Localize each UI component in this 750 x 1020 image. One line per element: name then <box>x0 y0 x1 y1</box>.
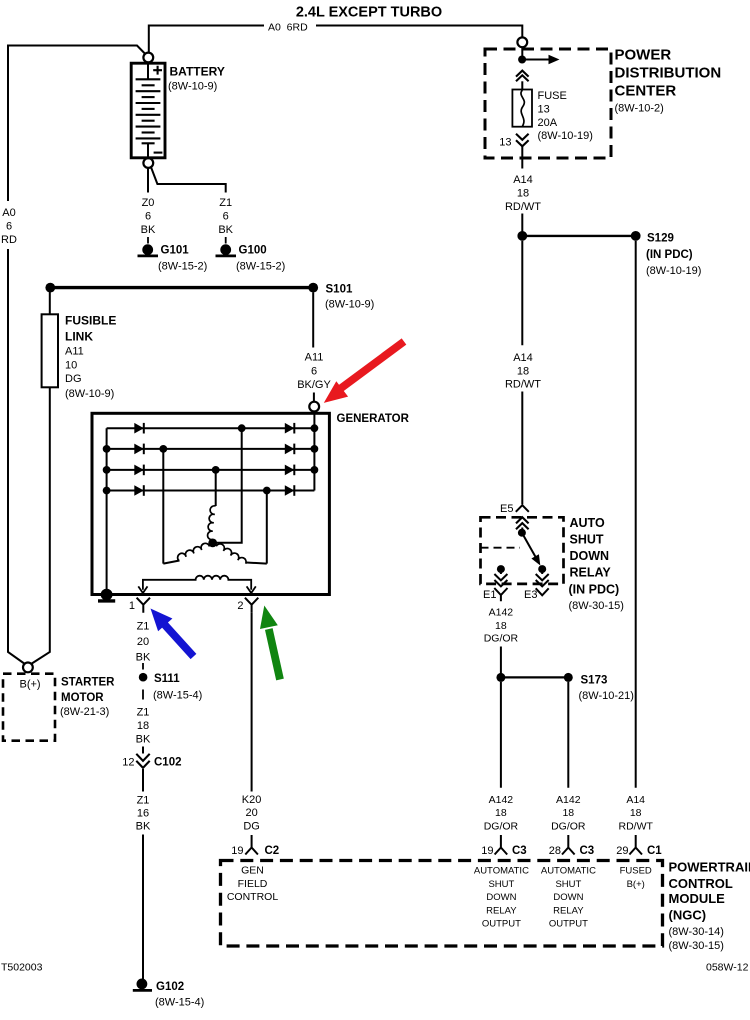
svg-text:DG/OR: DG/OR <box>551 821 586 833</box>
svg-text:Z1: Z1 <box>137 707 150 719</box>
wire <box>521 47 523 59</box>
wire dash <box>142 690 144 700</box>
starter motor M1 box <box>3 674 55 741</box>
svg-text:18: 18 <box>137 720 149 732</box>
node S101 right dot <box>308 283 318 293</box>
generator terminal circle <box>309 402 319 412</box>
svg-text:19: 19 <box>231 845 243 857</box>
fuse F13 <box>512 90 532 127</box>
label POWERTRAIN CONTROL MODULE (NGC) <box>669 860 750 953</box>
svg-text:LINK: LINK <box>65 329 93 343</box>
svg-text:GENERATOR: GENERATOR <box>337 413 410 425</box>
svg-text:OUTPUT: OUTPUT <box>549 919 588 930</box>
svg-text:18: 18 <box>495 807 507 819</box>
svg-text:(8W-15-2): (8W-15-2) <box>158 261 207 273</box>
svg-text:RD: RD <box>1 234 17 246</box>
battery terminal circle top <box>143 53 153 63</box>
node <box>159 445 167 453</box>
wire to fusible link <box>49 292 51 314</box>
svg-text:(NGC): (NGC) <box>669 908 707 923</box>
svg-text:A14: A14 <box>513 352 533 364</box>
label G102 <box>155 981 204 1009</box>
svg-text:A142: A142 <box>489 794 514 806</box>
svg-text:BK/GY: BK/GY <box>297 379 331 391</box>
svg-text:6: 6 <box>145 211 151 223</box>
svg-text:(8W-15-2): (8W-15-2) <box>236 261 285 273</box>
wire right bus <box>313 412 315 491</box>
svg-text:20: 20 <box>245 807 257 819</box>
label 28 C3 <box>549 845 594 857</box>
svg-text:A0 6RD: A0 6RD <box>268 22 308 34</box>
svg-text:6: 6 <box>6 221 12 233</box>
node <box>263 487 271 495</box>
label Z1 6 BK <box>218 197 233 236</box>
wire S129 <box>522 235 635 237</box>
ground G102 <box>133 980 152 991</box>
node S101 left dot <box>45 283 55 293</box>
svg-text:DOWN: DOWN <box>570 549 610 563</box>
diode D3 <box>134 465 144 476</box>
relay internal divider <box>481 547 521 549</box>
diode D4 <box>134 485 144 496</box>
label G101 <box>158 245 207 273</box>
svg-text:A0: A0 <box>2 207 15 219</box>
svg-text:G102: G102 <box>156 981 184 993</box>
terminal 2 connector <box>245 598 258 613</box>
connector chevrons into fuse <box>516 71 529 82</box>
svg-text:28: 28 <box>549 845 561 857</box>
svg-text:RELAY: RELAY <box>486 905 517 916</box>
wire diode row 3 <box>107 469 315 471</box>
wire diode row 2 <box>107 448 315 450</box>
label A11 6 BK/GY <box>297 352 331 392</box>
label FUSE 13 20A <box>538 90 593 142</box>
wire A11 <box>312 292 314 347</box>
ground G100 <box>216 245 237 256</box>
ground G101 <box>138 245 159 256</box>
connector E1 <box>494 588 507 601</box>
node <box>238 424 246 432</box>
stator winding right coil <box>216 544 246 564</box>
node S173 right <box>564 673 573 682</box>
svg-text:C3: C3 <box>580 845 595 857</box>
label AUTOMATIC SHUT DOWN RELAY OUTPUT col2 <box>541 866 596 930</box>
svg-text:19: 19 <box>481 845 493 857</box>
node wye center <box>208 539 217 548</box>
node left bus row2 <box>103 445 111 453</box>
svg-text:FUSED: FUSED <box>620 866 652 877</box>
wire <box>142 747 144 754</box>
label Z1 20 BK <box>136 621 151 664</box>
wire stator drop row1 to wye center <box>214 428 242 543</box>
label Z1 16 BK <box>136 795 151 833</box>
svg-text:(8W-30-14): (8W-30-14) <box>669 926 724 938</box>
connector C3 pin 28 <box>562 835 575 855</box>
ground generator case <box>98 590 115 601</box>
starter motor terminal circle <box>23 663 33 673</box>
svg-text:A14: A14 <box>513 174 533 186</box>
wire A0 top from battery to PDC <box>149 26 264 53</box>
node relay E3 <box>538 565 546 573</box>
svg-text:T502003: T502003 <box>1 962 43 974</box>
generator box <box>92 413 329 594</box>
wire Z0 <box>147 168 149 193</box>
wire A0 left branch <box>8 46 145 202</box>
svg-text:RD/WT: RD/WT <box>505 201 541 213</box>
svg-text:13: 13 <box>499 137 511 149</box>
node S111 <box>139 673 148 682</box>
connector E3 <box>536 588 549 595</box>
wire dash <box>147 237 149 244</box>
svg-text:RD/WT: RD/WT <box>505 379 541 391</box>
svg-text:S101: S101 <box>326 284 353 296</box>
svg-text:CENTER: CENTER <box>615 83 677 100</box>
connector C2 pin 19 <box>245 835 258 855</box>
svg-text:CONTROL: CONTROL <box>669 876 733 891</box>
svg-text:BK: BK <box>136 821 151 833</box>
svg-text:A142: A142 <box>556 794 581 806</box>
label A142 18 DG/OR col1 <box>484 794 519 833</box>
svg-text:K20: K20 <box>242 794 262 806</box>
wire stator drop row3 <box>215 470 217 506</box>
wire left bus <box>106 428 108 594</box>
label K20 20 DG <box>242 794 262 833</box>
connector C1 pin 29 <box>629 835 642 855</box>
powertrain control module box <box>221 861 663 947</box>
svg-text:18: 18 <box>517 366 529 378</box>
label A14 18 RD/WT <box>505 174 541 213</box>
node S129 left <box>517 231 527 241</box>
svg-text:FIELD: FIELD <box>238 878 268 890</box>
fusible link F1 <box>42 314 58 387</box>
node S129 right <box>631 231 641 241</box>
svg-text:BK: BK <box>218 224 233 236</box>
wire diode row 1 <box>107 427 315 429</box>
label Z0 6 BK <box>141 197 156 236</box>
connector C102 <box>136 754 149 768</box>
svg-text:MOTOR: MOTOR <box>61 692 104 704</box>
svg-text:C3: C3 <box>512 845 527 857</box>
svg-text:S111: S111 <box>154 673 180 685</box>
wire <box>521 392 523 505</box>
label AUTO SHUT DOWN RELAY (IN PDC) <box>569 516 624 612</box>
svg-text:SHUT: SHUT <box>555 879 581 890</box>
wire A14 from S129 to C1 <box>635 241 637 788</box>
label S111 <box>153 673 202 702</box>
node PDC feed <box>518 56 526 64</box>
relay pin E3 chevrons <box>536 569 549 586</box>
svg-text:S129: S129 <box>647 233 674 245</box>
connector chevrons out of fuse <box>516 134 529 147</box>
svg-text:B(+): B(+) <box>627 879 645 890</box>
node <box>212 466 220 474</box>
diode D7 <box>285 465 295 476</box>
svg-text:AUTOMATIC: AUTOMATIC <box>474 866 529 877</box>
svg-text:SHUT: SHUT <box>488 879 514 890</box>
node S173 left <box>496 673 505 682</box>
red arrow <box>324 342 404 403</box>
svg-text:GEN: GEN <box>241 865 264 877</box>
wire <box>142 835 144 980</box>
wire A14 down to relay <box>521 241 523 346</box>
label A14 18 RD/WT <box>505 352 541 391</box>
label AUTOMATIC SHUT DOWN RELAY OUTPUT col1 <box>474 866 529 930</box>
svg-text:DG/OR: DG/OR <box>484 821 519 833</box>
wire <box>313 393 315 402</box>
label A142 18 DG/OR <box>484 607 519 645</box>
svg-text:BK: BK <box>136 652 151 664</box>
svg-text:MODULE: MODULE <box>669 891 726 906</box>
svg-text:DISTRIBUTION: DISTRIBUTION <box>615 65 722 82</box>
label FUSED B(+) <box>620 866 652 891</box>
wire <box>521 146 523 168</box>
field terminal arrow 1 <box>138 586 147 593</box>
svg-text:AUTO: AUTO <box>570 516 605 530</box>
svg-text:FUSE: FUSE <box>538 90 567 102</box>
svg-text:(IN PDC): (IN PDC) <box>646 249 693 261</box>
svg-text:S173: S173 <box>581 675 608 687</box>
wire dash <box>225 237 227 244</box>
label A0 6 RD <box>1 207 17 246</box>
green arrow <box>260 606 280 680</box>
wire <box>521 81 523 89</box>
node left bus row3 <box>103 466 111 474</box>
svg-text:(8W-10-9): (8W-10-9) <box>65 388 114 400</box>
svg-text:C1: C1 <box>647 845 662 857</box>
wire <box>8 249 24 664</box>
svg-text:6: 6 <box>223 211 229 223</box>
svg-text:2.4L EXCEPT TURBO: 2.4L EXCEPT TURBO <box>296 5 442 21</box>
svg-text:FUSIBLE: FUSIBLE <box>65 314 116 328</box>
blue arrow <box>151 609 194 657</box>
svg-text:C2: C2 <box>265 845 280 857</box>
svg-text:RELAY: RELAY <box>553 905 584 916</box>
wire <box>567 682 569 788</box>
label G100 <box>236 245 285 273</box>
diode D5 <box>285 423 295 434</box>
relay pin E5 chevrons <box>516 517 529 529</box>
label 19 C3 <box>481 845 526 857</box>
svg-text:E1: E1 <box>483 589 496 601</box>
svg-text:Z1: Z1 <box>137 795 150 807</box>
svg-text:(8W-10-21): (8W-10-21) <box>579 690 634 702</box>
node right bus row3 <box>311 466 319 474</box>
wire wye left end <box>163 561 179 564</box>
label 19 C2 <box>231 845 279 857</box>
svg-text:Z1: Z1 <box>219 197 232 209</box>
label S173 <box>579 675 634 703</box>
svg-text:C102: C102 <box>154 757 182 769</box>
svg-text:1: 1 <box>129 600 135 612</box>
svg-text:18: 18 <box>562 807 574 819</box>
wire <box>521 528 523 533</box>
svg-text:B(+): B(+) <box>20 679 41 691</box>
svg-text:20A: 20A <box>538 117 558 129</box>
svg-text:18: 18 <box>495 620 507 632</box>
wire S173 <box>501 676 568 678</box>
svg-text:DOWN: DOWN <box>553 892 583 903</box>
splice S101 wire <box>50 286 313 289</box>
wire Z1 to G100 <box>151 167 226 193</box>
label FUSIBLE LINK <box>65 314 116 401</box>
svg-text:BK: BK <box>141 224 156 236</box>
svg-text:STARTER: STARTER <box>61 677 115 689</box>
svg-text:AUTOMATIC: AUTOMATIC <box>541 866 596 877</box>
wire <box>142 769 144 792</box>
relay pin E1 chevrons <box>494 569 507 586</box>
svg-text:E3: E3 <box>524 589 537 601</box>
svg-text:18: 18 <box>517 188 529 200</box>
wire stator drop row4 <box>266 491 268 564</box>
svg-text:10: 10 <box>65 359 77 371</box>
field terminal arrow 2 <box>247 586 256 593</box>
connector C3 pin 19 <box>495 835 508 855</box>
svg-text:BATTERY: BATTERY <box>170 65 225 79</box>
stator winding top coil <box>208 506 216 540</box>
label GEN FIELD CONTROL <box>227 865 278 904</box>
svg-text:(8W-10-9): (8W-10-9) <box>168 81 217 93</box>
arrow bus feed <box>522 55 559 65</box>
svg-text:(8W-10-2): (8W-10-2) <box>615 103 664 115</box>
node right bus row2 <box>311 445 319 453</box>
diode D8 <box>285 485 295 496</box>
svg-text:SHUT: SHUT <box>570 533 604 547</box>
wire wye right end <box>246 563 266 564</box>
wire <box>500 647 502 678</box>
node relay E1 <box>497 565 505 573</box>
label S101 <box>325 284 374 311</box>
diode D1 <box>134 423 144 434</box>
label A142 18 DG/OR col2 <box>551 794 586 833</box>
svg-text:A11: A11 <box>65 346 84 358</box>
wire dash <box>142 663 144 670</box>
svg-text:(8W-15-4): (8W-15-4) <box>155 997 204 1009</box>
svg-text:12: 12 <box>122 757 134 769</box>
svg-text:(8W-10-19): (8W-10-19) <box>538 130 593 142</box>
svg-text:(8W-10-9): (8W-10-9) <box>325 299 374 311</box>
svg-text:(8W-15-4): (8W-15-4) <box>153 690 202 702</box>
svg-text:POWER: POWER <box>615 47 672 64</box>
svg-text:29: 29 <box>616 845 628 857</box>
svg-text:(IN PDC): (IN PDC) <box>569 583 620 597</box>
svg-text:E5: E5 <box>500 503 513 515</box>
label 29 C1 <box>616 845 662 857</box>
svg-text:2: 2 <box>237 600 243 612</box>
svg-text:(8W-21-3): (8W-21-3) <box>60 706 109 718</box>
label 12 C102 <box>122 757 181 769</box>
svg-text:DG: DG <box>243 821 260 833</box>
svg-text:16: 16 <box>137 808 149 820</box>
label STARTER MOTOR <box>60 677 115 719</box>
wire K20 <box>251 613 253 792</box>
svg-text:OUTPUT: OUTPUT <box>482 919 521 930</box>
svg-text:RD/WT: RD/WT <box>618 821 653 833</box>
svg-text:18: 18 <box>630 807 642 819</box>
wire <box>521 214 523 232</box>
wire diode row 4 <box>107 490 315 492</box>
node left bus row4 <box>103 487 111 495</box>
terminal 1 connector <box>137 598 150 613</box>
svg-text:A14: A14 <box>626 794 645 806</box>
wire <box>500 682 502 788</box>
svg-text:Z0: Z0 <box>142 197 155 209</box>
svg-text:POWERTRAIN: POWERTRAIN <box>669 860 750 875</box>
node right bus row1 <box>311 424 319 432</box>
wire stator drop row2 <box>162 449 164 564</box>
diode D6 <box>285 444 295 455</box>
svg-text:DG: DG <box>65 373 82 385</box>
label S129 (IN PDC) <box>646 233 701 278</box>
svg-text:G101: G101 <box>161 245 190 257</box>
svg-text:RELAY: RELAY <box>570 566 612 580</box>
node relay common <box>518 529 526 537</box>
svg-text:20: 20 <box>137 636 149 648</box>
svg-text:G100: G100 <box>239 245 267 257</box>
label POWER DISTRIBUTION CENTER <box>615 47 722 115</box>
svg-text:DOWN: DOWN <box>486 892 516 903</box>
svg-text:13: 13 <box>538 104 550 116</box>
connector E5 <box>516 505 529 512</box>
relay switch arm <box>522 533 540 566</box>
stator winding left coil <box>178 543 210 560</box>
svg-text:A142: A142 <box>489 607 514 619</box>
label A14 18 RD/WT col3 <box>618 794 653 833</box>
diode D2 <box>134 444 144 455</box>
svg-text:6: 6 <box>311 365 317 377</box>
battery terminal circle bottom <box>143 158 153 168</box>
svg-text:058W-12: 058W-12 <box>706 962 749 974</box>
label Z1 18 BK <box>136 707 151 746</box>
svg-text:(8W-30-15): (8W-30-15) <box>669 940 724 952</box>
PDC terminal circle <box>517 37 527 47</box>
label BATTERY <box>168 65 225 93</box>
battery B1 <box>131 63 165 158</box>
svg-text:A11: A11 <box>305 352 324 364</box>
wire fusible link to starter <box>32 387 50 663</box>
svg-text:DG/OR: DG/OR <box>484 633 519 645</box>
power distribution center box <box>485 49 611 158</box>
field winding L1 <box>143 576 251 590</box>
auto shut down relay K1 box <box>481 517 564 584</box>
svg-text:Z1: Z1 <box>137 621 150 633</box>
svg-text:(8W-30-15): (8W-30-15) <box>569 600 624 612</box>
svg-text:BK: BK <box>136 734 151 746</box>
svg-text:CONTROL: CONTROL <box>227 891 278 903</box>
svg-text:(8W-10-19): (8W-10-19) <box>646 265 701 277</box>
